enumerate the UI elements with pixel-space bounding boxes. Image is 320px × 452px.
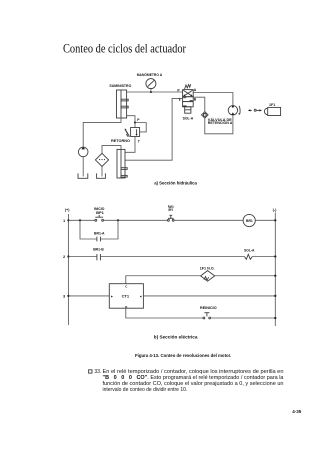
wire manifold to relief P — [127, 116, 135, 128]
branch BR1-A — [80, 220, 97, 239]
svg-text:1F1: 1F1 — [269, 103, 275, 107]
rail right — [274, 213, 276, 327]
pushbutton INICIO BP1 — [95, 215, 104, 221]
svg-text:REINICIO: REINICIO — [200, 305, 217, 310]
contact BR1-A — [97, 237, 101, 242]
svg-text:a) Sección hidráulica: a) Sección hidráulica — [154, 181, 197, 186]
svg-text:BR1-B: BR1-B — [93, 247, 104, 252]
pump — [78, 147, 88, 157]
valve SOL-A spring — [185, 84, 191, 89]
sensor 1F1 — [264, 107, 280, 115]
label VALVULA DE RETENCION A — [208, 117, 233, 125]
wire B to check valve — [193, 97, 205, 112]
svg-text:Figura 4-13. Conteo de revoluc: Figura 4-13. Conteo de revoluciones del … — [135, 353, 231, 358]
wire pilot loop — [135, 123, 146, 132]
svg-text:SUMINISTRO: SUMINISTRO — [109, 83, 131, 88]
counter CT1 — [109, 284, 143, 309]
paragraph — [103, 369, 284, 393]
node gauge junction — [150, 91, 152, 93]
svg-text:BR1: BR1 — [246, 219, 253, 223]
motor — [228, 106, 240, 115]
wire filter to manifold — [102, 146, 121, 154]
svg-text:MANÓMETRO A: MANÓMETRO A — [137, 72, 162, 77]
wire pump to manifold — [83, 118, 121, 147]
svg-text:RETORNO: RETORNO — [111, 138, 130, 143]
check valve VALVULA DE RETENCION A — [202, 112, 209, 118]
svg-text:(+): (+) — [65, 208, 70, 212]
wire gauge stem — [150, 89, 152, 92]
wire A to motor — [193, 93, 233, 106]
wire — [211, 317, 276, 319]
svg-text:BR1-A: BR1-A — [94, 230, 105, 235]
svg-text:33.: 33. — [94, 369, 101, 375]
svg-text:SOL-A: SOL-A — [183, 116, 194, 121]
checkbox — [89, 370, 92, 373]
wire supply P — [127, 91, 183, 93]
svg-text:b) Sección eléctrica: b) Sección eléctrica — [154, 334, 198, 339]
svg-text:1F1 N.O.: 1F1 N.O. — [200, 266, 215, 271]
arrow coupling — [248, 109, 262, 111]
manifold RETORNO — [117, 149, 127, 178]
pin T arrow — [179, 98, 181, 101]
node branch right — [117, 219, 119, 221]
svg-text:4-35: 4-35 — [292, 409, 302, 414]
wire — [215, 275, 276, 277]
node branch left — [79, 219, 81, 221]
wire — [104, 219, 168, 221]
svg-text:SOL-A: SOL-A — [244, 248, 254, 253]
svg-text:intervalo de conteo de dividir: intervalo de conteo de dividir entre 10. — [103, 387, 188, 393]
gauge MANOMETRO A — [146, 79, 156, 89]
rail left — [67, 214, 69, 325]
tank pump — [78, 173, 88, 178]
rung reset — [126, 308, 203, 318]
manifold SUMINISTRO — [117, 90, 129, 118]
solenoid SOL-A — [244, 254, 252, 259]
svg-text:BP1: BP1 — [96, 210, 105, 215]
wire pump to tank — [82, 157, 84, 177]
contact 1F1 N.O. — [201, 271, 215, 282]
coil BR1 — [243, 214, 255, 226]
pushbutton PARO BP2 (NC) — [167, 215, 174, 221]
valve SOL-A body — [183, 90, 194, 114]
wire check valve to motor bottom — [205, 115, 233, 134]
wire — [255, 219, 275, 221]
filter — [95, 153, 108, 166]
wire — [143, 295, 275, 297]
wire — [174, 219, 243, 221]
wire T return — [125, 98, 183, 160]
rung 1F1 — [126, 276, 201, 284]
wire — [252, 256, 275, 258]
svg-text:BP2: BP2 — [169, 207, 174, 212]
svg-text:RETENCIÓN A: RETENCIÓN A — [208, 120, 233, 125]
node P — [134, 121, 136, 123]
pushbutton REINICIO — [203, 313, 211, 319]
wire filter to tank — [101, 167, 103, 177]
wire — [100, 256, 244, 258]
svg-text:Conteo de ciclos del actuador: Conteo de ciclos del actuador — [63, 41, 186, 55]
relief valve — [125, 128, 140, 137]
svg-text:CT1: CT1 — [122, 294, 130, 299]
tank filter — [97, 173, 106, 178]
contact BR1-B — [97, 254, 101, 260]
wire relief T — [125, 137, 135, 153]
